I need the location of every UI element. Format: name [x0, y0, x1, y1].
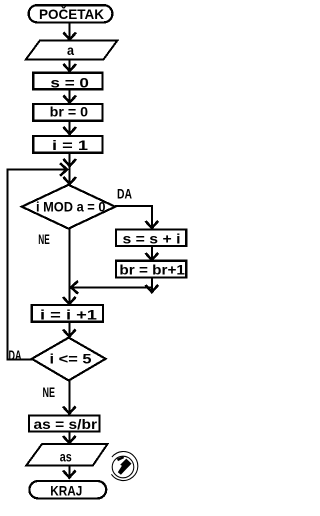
- process box as = s/br: [29, 416, 100, 433]
- wire br=br+1 down to merge line: [151, 278, 153, 291]
- input parallelogram a: [26, 40, 118, 59]
- output parallelogram as: [26, 444, 107, 465]
- arrowhead into second diamond: [63, 330, 76, 337]
- arrowhead at merge junction: [146, 285, 159, 292]
- arrowhead into input a: [63, 33, 76, 40]
- arrowhead pointing right into junction: [60, 163, 67, 176]
- svg-text:NE: NE: [42, 384, 55, 400]
- svg-text:as = s/br: as = s/br: [34, 416, 98, 432]
- arrowhead pointing left into main line: [71, 281, 78, 294]
- wire second diamond to as=s/br: [68, 381, 70, 414]
- watermark logo glyph chevron: [118, 459, 132, 475]
- arrowhead into br=0: [63, 96, 76, 103]
- process box br = 0: [33, 103, 102, 121]
- arrowhead into br=br+1: [146, 253, 159, 260]
- process box i = 1: [33, 136, 102, 153]
- svg-text:as: as: [60, 448, 72, 464]
- svg-text:br = br+1: br = br+1: [119, 262, 185, 278]
- decision diamond i <= 5: [32, 338, 106, 381]
- svg-text:DA: DA: [117, 186, 132, 202]
- wire input to s=0: [69, 59, 71, 70]
- decision diamond i MOD a = 0: [22, 185, 115, 229]
- terminator KRAJ: [29, 481, 106, 499]
- watermark logo outer arc: [111, 452, 137, 481]
- arrowhead into decision diamond: [63, 177, 76, 184]
- process box br = br+1: [116, 261, 186, 278]
- arrowhead into KRAJ: [63, 471, 76, 478]
- arrowhead into s=0: [63, 64, 76, 71]
- svg-text:DA: DA: [9, 347, 22, 363]
- watermark logo glyph accent bar: [117, 456, 124, 461]
- loop-back wire left and up to junction: [8, 170, 67, 360]
- svg-text:s = s + i: s = s + i: [123, 231, 181, 247]
- arrowhead into as=s/br: [63, 407, 76, 414]
- svg-text:i <= 5: i <= 5: [50, 351, 92, 367]
- wire output to KRAJ: [68, 465, 70, 477]
- arrowhead into output as: [63, 436, 76, 443]
- terminator POČETAK: [29, 5, 113, 22]
- svg-text:NE: NE: [38, 231, 50, 247]
- wire DA branch to s=s+i: [115, 206, 152, 228]
- process box i = i +1: [32, 305, 103, 323]
- arrowhead into s=s+i: [146, 221, 159, 228]
- wire terminator to input: [69, 23, 71, 39]
- process box s = 0: [33, 73, 102, 91]
- svg-text:a: a: [67, 42, 74, 58]
- wire br=0 to i=1: [69, 121, 71, 134]
- svg-text:s = 0: s = 0: [50, 74, 89, 90]
- merge wire back to main line: [71, 286, 152, 288]
- arrowhead into i=i+1: [63, 297, 76, 304]
- svg-text:POČETAK: POČETAK: [39, 5, 104, 22]
- wire as=s/br to output: [68, 432, 70, 443]
- svg-text:i = 1: i = 1: [52, 137, 88, 153]
- svg-text:i MOD a = 0: i MOD a = 0: [36, 198, 106, 214]
- svg-text:KRAJ: KRAJ: [50, 483, 82, 499]
- svg-text:br = 0: br = 0: [50, 103, 89, 119]
- arrowhead into i=1: [63, 127, 76, 134]
- arrowhead into junction: [63, 159, 76, 166]
- svg-text:i = i +1: i = i +1: [40, 307, 97, 323]
- watermark logo inner circle: [112, 456, 134, 478]
- process box s = s + i: [116, 230, 186, 247]
- wire diamond bottom to i=i+1: [68, 229, 70, 304]
- wire s=s+i to br=br+1: [151, 246, 153, 259]
- wire i=1 down to junction and diamond: [69, 153, 71, 184]
- wire i=i+1 to second diamond: [68, 322, 70, 337]
- wire s=0 to br=0: [69, 89, 71, 102]
